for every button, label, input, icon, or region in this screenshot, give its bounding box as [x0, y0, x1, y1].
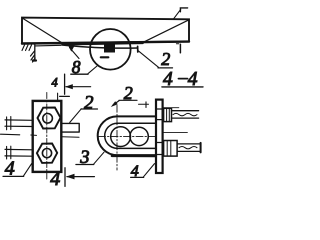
- section arrow bottom: [67, 176, 94, 178]
- beam body (long bar): [22, 18, 189, 44]
- stud boss right of plate: [61, 123, 79, 132]
- dash near flange top: [139, 103, 149, 105]
- corner mark leader: [173, 9, 181, 19]
- flange bolt hole lines lower: [156, 143, 162, 155]
- section line bottom stroke: [64, 168, 66, 187]
- plate: [33, 101, 62, 172]
- wall foot blob: [33, 59, 36, 61]
- section arrow top: [66, 86, 91, 88]
- tiny dash left of tick: [176, 43, 178, 45]
- support hatching under beam: [22, 45, 32, 51]
- lower bolt thread squiggle: [179, 147, 197, 149]
- small dash near plate top: [60, 95, 70, 97]
- lower nut facets: [167, 141, 171, 157]
- label 4 leader: [144, 164, 155, 177]
- upper nut facets: [167, 108, 170, 121]
- label 4 corner leader: [24, 162, 34, 176]
- beam right diagonal: [141, 20, 188, 43]
- tick under beam right end: [179, 44, 181, 53]
- beam left diagonal: [23, 18, 62, 43]
- support ledge line: [35, 44, 61, 47]
- workpiece circle: [90, 29, 131, 70]
- upper bolt thread squiggle: [173, 113, 197, 115]
- svg-text:2: 2: [161, 49, 170, 69]
- label 3 leader: [94, 152, 104, 164]
- tick above U near flange: [145, 102, 147, 108]
- leader to label 2 (plate): [70, 109, 82, 123]
- vertical centerline: [46, 93, 48, 182]
- flange bolt hole lines upper: [156, 109, 162, 120]
- svg-text:4: 4: [52, 76, 58, 90]
- upper bolt shank: [172, 111, 199, 118]
- label 3 underline: [76, 164, 94, 166]
- hex nut 1: [38, 108, 61, 129]
- label 4 underline: [131, 176, 144, 178]
- lower shank thread ticks: [7, 146, 11, 159]
- lower stud shank (left): [5, 149, 33, 156]
- upper nut top line: [163, 107, 179, 109]
- U bottom edge (heavy): [112, 155, 156, 158]
- strip right end: [137, 46, 139, 52]
- short dash below block: [101, 56, 109, 58]
- U-clamp inner contour: [105, 123, 156, 148]
- nut 1 bore circle: [43, 114, 53, 124]
- label 4 corner underline: [3, 175, 24, 177]
- hex nut 2: [37, 144, 57, 163]
- label 2 underline: [158, 67, 173, 69]
- small tick near plate top: [57, 93, 59, 100]
- strip bottom edge: [62, 45, 138, 48]
- upper shank thread ticks: [7, 117, 11, 130]
- arrowhead of leader 8: [68, 44, 75, 51]
- section line top stroke: [64, 74, 66, 94]
- flange plate: [156, 100, 163, 173]
- lower bolt end cap: [200, 143, 202, 153]
- bolt section circle 2: [130, 127, 148, 145]
- lower bolt nut: [164, 141, 178, 157]
- svg-text:2: 2: [84, 92, 94, 113]
- beam bottom edge (heavy): [22, 42, 189, 44]
- title underline: [162, 86, 203, 88]
- label 2 underline: [119, 99, 137, 101]
- label 8 underline: [71, 73, 88, 75]
- U-clamp outer contour: [98, 116, 156, 155]
- circuit-free mechanical drawing: clamp assembly figure: [0, 0, 204, 195]
- corner view mark: [180, 8, 187, 12]
- svg-text:4: 4: [50, 168, 60, 190]
- bolt section circle 1: [111, 127, 131, 147]
- lower bolt shank: [177, 144, 200, 152]
- U vertical centerline: [116, 105, 118, 170]
- arrow of label 2 (U): [113, 101, 119, 106]
- tapering strip under beam: top edge: [62, 43, 143, 44]
- upper bolt nut: [164, 108, 172, 121]
- upper stud shank (left): [5, 120, 33, 127]
- leader to label 2 (top): [138, 51, 158, 68]
- U horizontal centerline: [99, 136, 157, 138]
- horizontal centerline segments: [1, 133, 20, 136]
- wall hatching: [31, 51, 36, 62]
- centerline extension right: [163, 131, 188, 133]
- support wall edge: [34, 45, 36, 61]
- nut 2 bore circle: [42, 149, 51, 158]
- label 8 second leader to circle: [88, 66, 97, 74]
- clamp block (filled section): [104, 44, 115, 52]
- leader to label 8: [70, 48, 80, 59]
- label 2 underline: [81, 108, 98, 110]
